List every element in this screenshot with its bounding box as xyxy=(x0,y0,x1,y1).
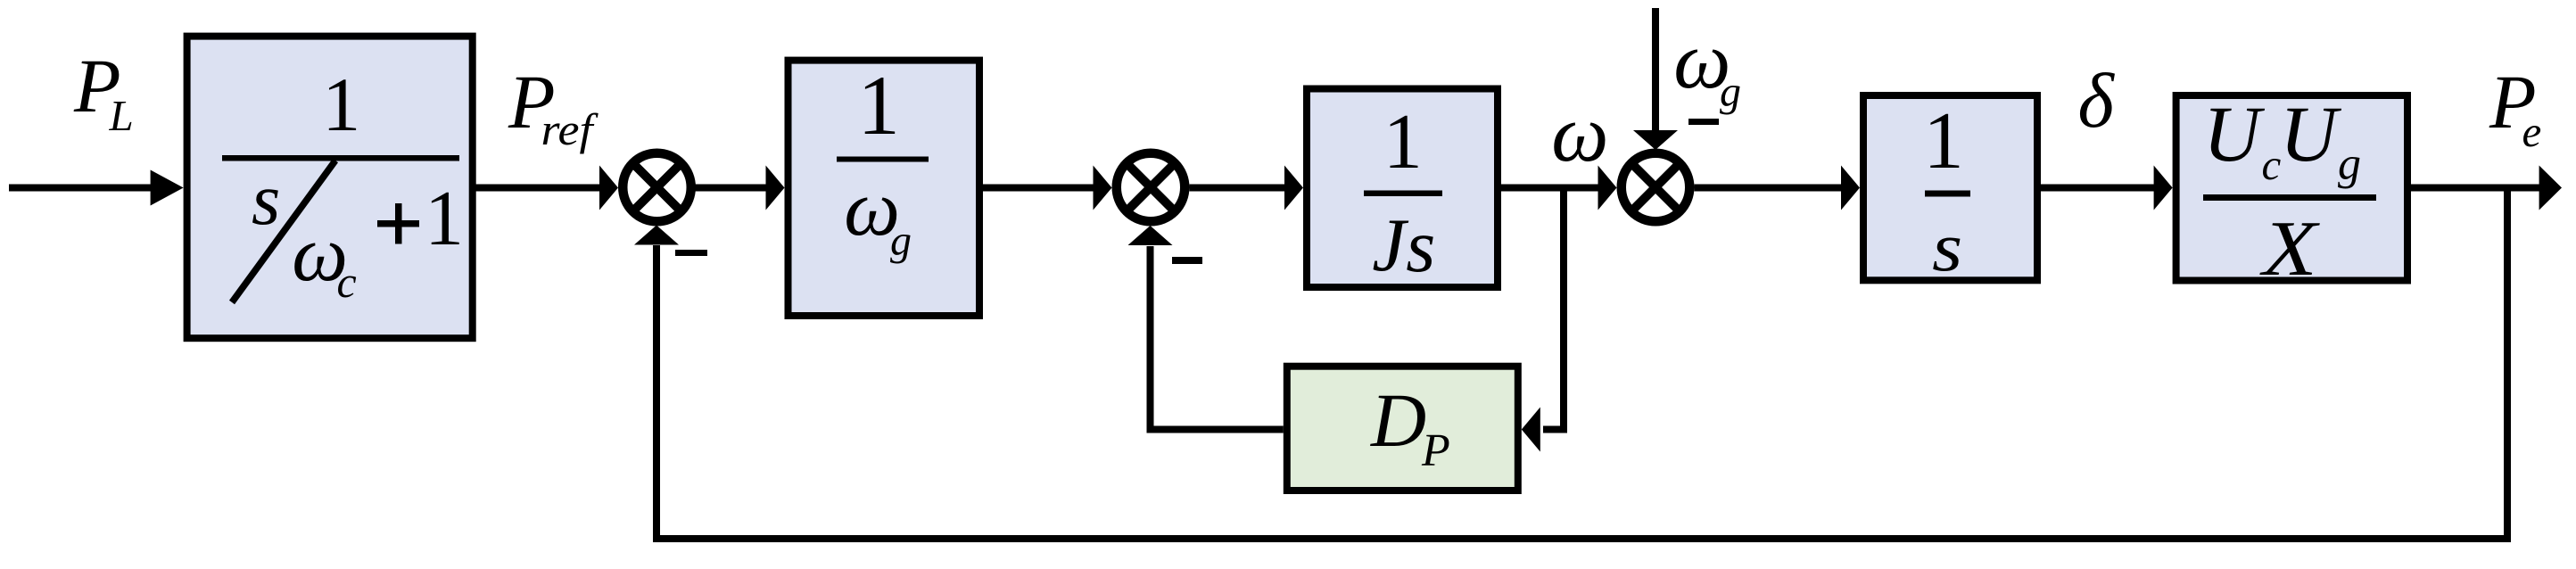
svg-text:c: c xyxy=(337,257,357,307)
svg-text:s: s xyxy=(252,158,280,240)
svg-text:1: 1 xyxy=(857,58,900,153)
svg-text:e: e xyxy=(2522,107,2542,156)
svg-text:L: L xyxy=(109,91,134,140)
svg-text:g: g xyxy=(1720,68,1741,115)
svg-text:ω: ω xyxy=(1551,88,1608,178)
svg-text:δ: δ xyxy=(2077,57,2115,144)
svg-text:1: 1 xyxy=(322,62,360,147)
svg-text:J: J xyxy=(1372,203,1409,287)
svg-text:U: U xyxy=(2280,91,2342,178)
svg-text:U: U xyxy=(2203,91,2266,178)
svg-text:X: X xyxy=(2259,206,2320,293)
svg-text:s: s xyxy=(1406,204,1435,288)
svg-text:1: 1 xyxy=(425,176,464,262)
svg-text:c: c xyxy=(2262,140,2282,189)
svg-text:P: P xyxy=(1421,425,1450,476)
svg-text:1: 1 xyxy=(1923,95,1964,186)
svg-text:D: D xyxy=(1370,377,1426,463)
svg-text:ref: ref xyxy=(541,104,599,154)
svg-text:g: g xyxy=(2338,139,2361,190)
svg-text:1: 1 xyxy=(1383,99,1423,186)
svg-text:s: s xyxy=(1932,208,1962,285)
svg-text:g: g xyxy=(890,217,912,264)
